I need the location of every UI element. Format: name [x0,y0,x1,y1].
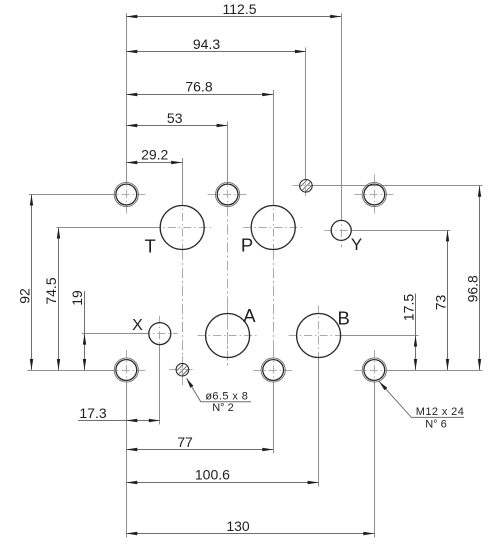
crosshair hole ø6.5 bottom [169,356,196,383]
M12 mounting hole top-right [362,182,386,206]
svg-text:B: B [338,308,350,329]
M12 mounting hole bottom-left [114,358,138,382]
centerline vertical from port P down to M12 hole [273,250,275,357]
svg-text:96.8: 96.8 [464,275,480,302]
extension line column T above [182,158,184,205]
svg-text:P: P [241,235,253,256]
crosshair port B [289,306,349,366]
crosshair bottom-right M12 hole [354,350,394,390]
port T [160,206,204,250]
svg-text:N° 2: N° 2 [212,402,234,414]
dimension 19 [69,290,86,370]
svg-text:73: 73 [432,295,448,311]
pilot hole X [149,323,171,345]
port A [206,314,250,358]
pilot hole Y [331,220,351,240]
dimension 112.5 [126,1,341,18]
note ø6.5 x 8 [205,391,248,403]
svg-text:92: 92 [17,288,33,304]
dimension 92 [17,195,34,371]
svg-text:T: T [145,235,156,256]
extension line right from small top hole [312,185,482,187]
label T [145,235,156,256]
dimension 94.3 [126,36,306,53]
extension line right from port B [341,335,418,337]
svg-text:A: A [243,305,256,326]
extension line left at top hole row [29,194,115,196]
extension line column B below [318,358,320,486]
extension line left at X row [82,333,149,335]
svg-text:X: X [132,317,143,334]
extension line left at T row [57,227,161,229]
extension line column P above [273,90,275,205]
dimension 73 [432,230,449,370]
extension line column small hole above [305,48,307,180]
crosshair port A [198,306,258,366]
crosshair top-middle M12 hole [208,174,248,214]
svg-text:17.5: 17.5 [400,294,416,321]
label A [243,305,256,326]
extension line column top-middle above [227,122,229,185]
note N 2 [212,402,234,414]
svg-text:74.5: 74.5 [43,277,59,304]
extension line column P below [273,382,275,453]
crosshair bottom-left M12 hole [106,350,146,390]
extension line column x0 below [126,382,128,537]
label Y [351,235,362,254]
svg-text:100.6: 100.6 [195,467,230,483]
svg-text:112.5: 112.5 [223,1,257,17]
crosshair top-left M12 hole [106,174,146,214]
centerline vertical through top-middle hole and port A [227,207,229,367]
dimension 96.8 [464,186,481,370]
locating hole ø6.5 top [300,180,313,193]
extension line column x0 above [126,13,128,182]
note M12 x 24 [416,406,464,418]
crosshair top-right M12 hole [354,174,394,214]
dimension 77 [126,434,273,451]
dimension 29.2 [126,147,182,165]
svg-text:94.3: 94.3 [193,36,220,52]
svg-text:17.3: 17.3 [79,405,106,421]
crosshair hole Y [324,213,358,247]
M12 mounting hole bottom-right [362,358,386,382]
crosshair hole X [142,316,178,352]
dimension 74.5 [43,228,60,371]
extension line right at bottom hole row [387,370,483,372]
port B [297,314,341,358]
dimension 17.3 [78,405,160,422]
svg-text:M12 x 24: M12 x 24 [416,406,464,418]
label P [241,235,253,256]
extension line column Y above [341,13,343,220]
dimension 76.8 [126,78,273,96]
centerline vertical through T port down to hole ø6.5 [182,250,184,385]
locating hole ø6.5 bottom [176,363,189,376]
label X [132,317,143,334]
dimension 17.5 [400,294,417,371]
svg-text:77: 77 [177,434,193,450]
extension line column X below [159,345,161,425]
leader hole ø6.5 [187,378,251,401]
note N 6 [425,419,447,431]
port P [251,206,295,250]
extension line right from hole Y [351,230,450,232]
extension line left at bottom hole row [28,370,115,372]
M12 mounting hole top-left [114,182,138,206]
dimension 53 [126,110,227,127]
svg-text:19: 19 [69,290,85,306]
svg-text:29.2: 29.2 [141,147,168,163]
crosshair port T [152,198,212,258]
M12 mounting hole bottom-middle [261,358,285,382]
leader M12 [379,382,464,418]
svg-text:ø6.5 x 8: ø6.5 x 8 [205,391,248,403]
dimension 130 [126,518,374,535]
svg-text:53: 53 [167,110,183,126]
dimension 100.6 [126,467,318,485]
crosshair port P [243,198,303,258]
crosshair bottom-middle M12 hole [253,350,293,390]
svg-text:76.8: 76.8 [185,78,212,94]
svg-text:Y: Y [351,235,362,254]
label B [338,308,350,329]
svg-text:130: 130 [226,518,250,534]
crosshair small hole top [293,173,320,200]
svg-text:N° 6: N° 6 [425,419,447,431]
extension line column right below [374,382,376,537]
M12 mounting hole top-middle [216,182,240,206]
